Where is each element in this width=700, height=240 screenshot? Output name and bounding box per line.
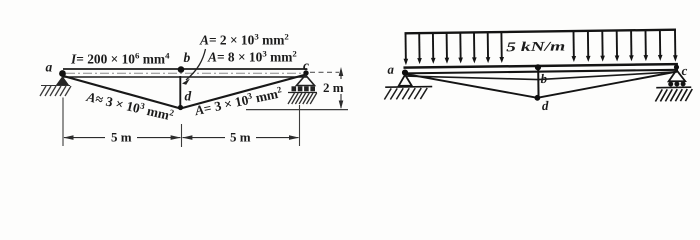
extension line below c support (299, 105, 301, 146)
roller support at c (288, 75, 317, 104)
node c (303, 70, 308, 75)
svg-text:c: c (681, 63, 687, 78)
beam a-c (right figure) (403, 64, 678, 73)
svg-text:A= 2 × 103 mm2: A= 2 × 103 mm2 (199, 32, 289, 48)
extension line right of d (246, 109, 348, 111)
svg-text:c: c (303, 58, 309, 73)
distributed load top line (405, 30, 676, 34)
centerline extension right of c (310, 71, 339, 73)
leader from labels to strut (182, 49, 206, 85)
tie rod a-d (62, 76, 181, 109)
node b (right figure) (535, 64, 541, 70)
svg-text:d: d (542, 98, 549, 113)
extension line below d (middle tick) (181, 124, 183, 147)
svg-text:2 m: 2 m (323, 80, 344, 95)
svg-text:a: a (46, 59, 53, 74)
svg-text:5 m: 5 m (111, 130, 132, 145)
beam centerline (dash-dot) (66, 72, 304, 74)
svg-text:A= 3 × 103 mm2: A= 3 × 103 mm2 (192, 84, 284, 118)
dimension 2 m (339, 67, 344, 109)
load arrows (406, 30, 676, 62)
pin support at a (40, 76, 71, 96)
node c (right figure) (674, 65, 679, 70)
extension line below a (62, 98, 64, 147)
svg-text:5 m: 5 m (230, 130, 251, 145)
roller support at c (right figure) (655, 70, 692, 102)
tie rod d-c (181, 75, 307, 109)
dimension line 5 m + 5 m (64, 137, 299, 139)
svg-text:A= 8 × 103 mm2: A= 8 × 103 mm2 (207, 49, 297, 65)
svg-text:d: d (185, 89, 192, 104)
svg-text:b: b (184, 50, 191, 65)
node a (59, 70, 66, 77)
node b (178, 66, 185, 73)
node d (right figure) (534, 95, 540, 101)
beam a-c (top chord, double line) (63, 69, 307, 77)
svg-text:5 kN/m: 5 kN/m (506, 38, 565, 54)
svg-text:a: a (387, 62, 394, 77)
strut b-d (179, 76, 181, 109)
tie rod a-d (right figure) (406, 72, 537, 99)
beam bottom flange (crooked third line) (406, 72, 677, 81)
pin support at a (right figure) (384, 74, 432, 99)
node d (178, 105, 183, 110)
node a (right figure) (402, 69, 408, 75)
strut b-d (right figure) (537, 69, 539, 98)
tie rod d-c (right figure) (537, 72, 677, 98)
svg-text:b: b (541, 71, 548, 86)
svg-text:I= 200 × 106 mm4: I= 200 × 106 mm4 (70, 51, 170, 67)
